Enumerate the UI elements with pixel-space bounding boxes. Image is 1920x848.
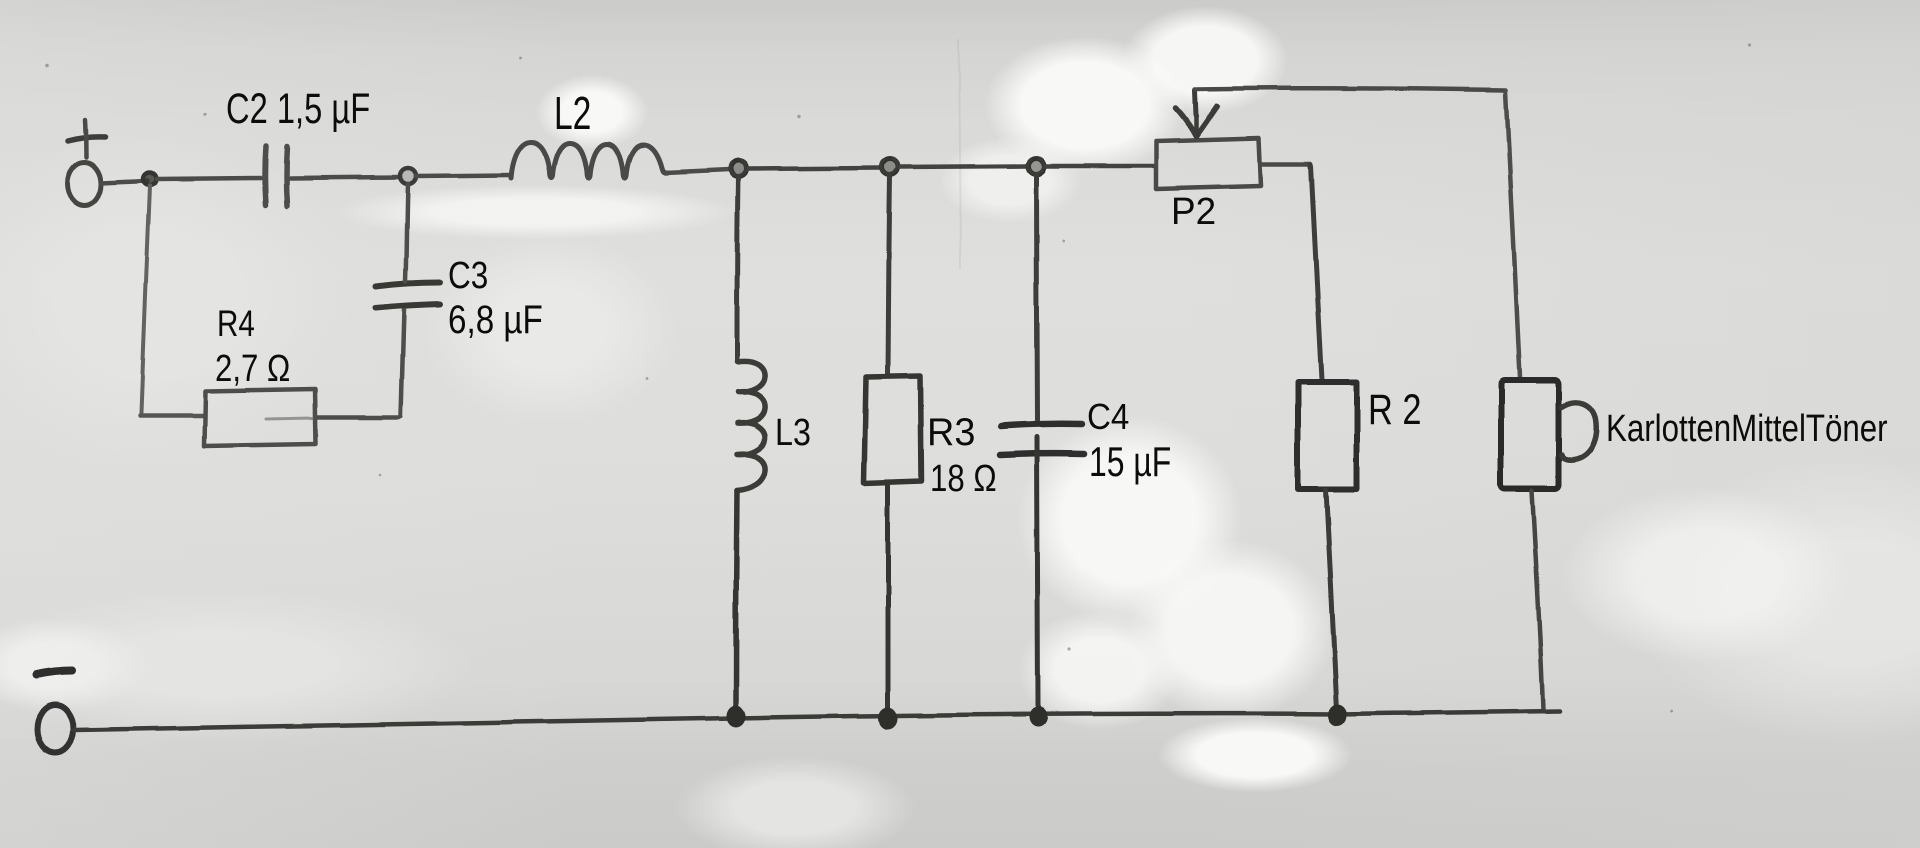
- R3 top vertical: [888, 175, 890, 374]
- wire P2 right to R2 branch: [1261, 162, 1311, 167]
- wire into R4 left: [140, 414, 203, 419]
- speaker box: [1501, 380, 1559, 489]
- paper specks: [45, 43, 1751, 712]
- wire node D to node E: [899, 166, 1027, 167]
- left branch vertical wire (node A down): [141, 186, 150, 413]
- node D scribble: [881, 159, 897, 174]
- resistor R2 box: [1298, 382, 1357, 489]
- ground rail wire: [74, 711, 1560, 730]
- potentiometer P2 box: [1156, 138, 1261, 189]
- label R3 value: [930, 460, 997, 498]
- wire node C to node D: [747, 168, 881, 169]
- R3 bottom vertical: [886, 484, 891, 710]
- wire L2 to node C: [665, 170, 729, 173]
- minus sign: [36, 671, 72, 675]
- rail junction L3: [727, 705, 746, 727]
- wire R4 right to C3 bottom: [317, 415, 399, 420]
- speaker dome: [1562, 402, 1597, 459]
- node E scribble: [1027, 158, 1043, 173]
- wiper wire to top right corner: [1195, 88, 1506, 90]
- R4 inner mark: [266, 418, 313, 419]
- wire C2 to node B: [290, 177, 400, 178]
- node C junction: [730, 161, 746, 177]
- label R2: [1368, 389, 1422, 432]
- paper crease: [959, 40, 961, 268]
- capacitor C2: [265, 146, 266, 205]
- capacitor C4: [1001, 424, 1082, 426]
- rail junction C4: [1029, 707, 1047, 727]
- node A junction: [144, 173, 157, 186]
- plus sign: [68, 137, 105, 141]
- label R4: [217, 305, 255, 342]
- speaker bottom wire: [1532, 491, 1543, 710]
- wire node A to C2: [157, 178, 262, 179]
- label C2 value: [226, 88, 370, 131]
- P2 wiper arrow: [1195, 90, 1196, 116]
- C4 top vertical: [1036, 175, 1037, 420]
- right vertical wire down to speaker: [1506, 91, 1520, 377]
- rail junction R3: [879, 707, 898, 729]
- L3 branch top vertical: [737, 177, 738, 362]
- inductor L3: [737, 361, 765, 491]
- input terminal +: [67, 162, 101, 206]
- C4 bottom vertical: [1037, 437, 1038, 709]
- minus terminal: [37, 705, 73, 753]
- wire C3 top to node B: [406, 184, 408, 281]
- label C3: [448, 257, 488, 295]
- node E junction: [1028, 158, 1044, 174]
- resistor R3 box: [864, 376, 921, 483]
- inductor L2: [511, 142, 668, 178]
- label C3 value: [448, 300, 543, 340]
- capacitor C3: [376, 282, 440, 286]
- wire input to node A: [101, 181, 148, 183]
- label P2: [1171, 193, 1216, 231]
- wire node E to P2: [1045, 164, 1154, 169]
- rail junction R2: [1329, 704, 1348, 726]
- label L2: [554, 90, 591, 136]
- label L3: [775, 414, 811, 452]
- label speaker name: [1606, 410, 1888, 448]
- label R4 value: [215, 350, 290, 388]
- L3 bottom vertical: [736, 491, 737, 708]
- wire up to C3: [401, 309, 404, 416]
- label C4: [1087, 399, 1129, 435]
- wire node B to L2: [416, 175, 510, 176]
- label C4 value: [1089, 441, 1171, 483]
- node C scribble: [729, 161, 745, 176]
- R2 bottom wire: [1326, 490, 1337, 711]
- node D junction: [882, 159, 898, 175]
- label R3: [927, 413, 975, 452]
- R2 branch vertical top: [1311, 165, 1322, 380]
- node B junction: [400, 168, 416, 184]
- resistor R4 box: [204, 389, 316, 446]
